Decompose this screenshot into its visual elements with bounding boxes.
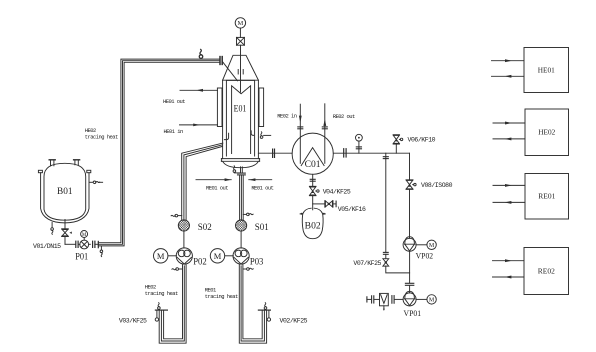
svg-text:P03: P03 (250, 257, 264, 267)
valve V08 (406, 180, 416, 189)
svg-text:P01: P01 (75, 252, 88, 262)
P01 suction flange (76, 241, 80, 247)
HE02 return arrow (493, 137, 525, 140)
pipe C01 to V04 (312, 174, 314, 186)
traced pipe P03 down U to V02 stub (239, 265, 266, 343)
P03 motor M (210, 249, 233, 263)
neck flange (238, 173, 246, 175)
traced pipe E01 jacket to S02 (182, 143, 223, 220)
pipe E01 to C01 (258, 152, 292, 154)
svg-text:M: M (429, 298, 435, 304)
V03 stub cap (155, 309, 167, 311)
vacuum pump VP01 (403, 291, 416, 306)
hose left of neck (233, 166, 239, 173)
cooler box RE01 (525, 174, 569, 220)
svg-text:HE01 in: HE01 in (164, 128, 184, 135)
hose below P02 (172, 268, 183, 271)
pipe V04 to B02 (312, 196, 314, 210)
svg-text:E01: E01 (234, 104, 247, 114)
E01 bottom flange band (221, 159, 259, 162)
valve V04 (310, 186, 320, 195)
svg-text:M: M (157, 251, 165, 261)
E01 bottom neck (241, 167, 243, 173)
E01 right jacket flange plate (259, 88, 264, 127)
svg-text:V05/KF16: V05/KF16 (338, 206, 366, 213)
svg-text:HE02: HE02 (538, 129, 555, 137)
svg-text:M: M (429, 243, 435, 249)
feed dip pipe in hood (222, 62, 237, 81)
VP01 motor M (416, 295, 436, 304)
hose right of S01 pipe (243, 213, 253, 216)
filter S01 (236, 220, 247, 231)
RE02 return arrow (493, 276, 525, 279)
B01 top nozzle left (49, 160, 55, 166)
svg-text:S01: S01 (255, 222, 269, 232)
HE01 supply arrow (492, 59, 525, 62)
svg-text:HE01 out: HE01 out (163, 98, 185, 105)
motor shaft (239, 28, 241, 37)
RE02 out pipe (322, 104, 327, 164)
svg-text:B02: B02 (305, 221, 321, 231)
vacuum main line upper (409, 153, 411, 238)
pump P01 (80, 240, 89, 249)
svg-text:RE01 out: RE01 out (251, 185, 273, 192)
P01 discharge flange (89, 241, 99, 248)
label HE02 tracing heat (riser) (85, 127, 118, 141)
pipe S02 to P02 (183, 231, 185, 248)
condenser C01 (292, 133, 333, 174)
flange E01-C01 (273, 149, 275, 157)
traced drop pipe to S01 (240, 175, 244, 220)
svg-text:V02/KF25: V02/KF25 (280, 318, 308, 325)
svg-text:RE02 in: RE02 in (277, 112, 297, 119)
column E01 body (223, 80, 259, 158)
svg-text:RE01: RE01 (538, 193, 555, 201)
valve V07 (383, 254, 389, 266)
svg-text:VP02: VP02 (416, 252, 434, 261)
V02 stub cap (258, 309, 270, 311)
svg-text:M: M (214, 251, 222, 261)
P01 motor M (81, 231, 88, 241)
svg-text:V03/KF25: V03/KF25 (119, 318, 147, 325)
pipe S01 to P03 (240, 231, 242, 248)
pump P03 (233, 248, 249, 264)
E01 dished bottom (223, 161, 259, 167)
hose on feed pipe (199, 49, 203, 58)
B01 top nozzle right (74, 160, 80, 165)
valve V02 drain (267, 311, 270, 321)
E01 inner tube (226, 80, 254, 156)
pump P02 (176, 248, 192, 264)
RE01 out arrow left (196, 178, 231, 181)
vent branch to V05 (313, 203, 325, 205)
bypass stub flange (383, 153, 388, 252)
valve V03 drain (155, 311, 158, 321)
hose on V03 stub (158, 303, 161, 310)
VP02 motor M (416, 240, 436, 249)
bypass flange above V07 (383, 252, 388, 254)
svg-text:RE02: RE02 (538, 268, 555, 276)
B01 outlet neck (64, 220, 66, 229)
valve V01 (62, 229, 72, 237)
E01 vent hook right (251, 131, 253, 136)
hose below P01 line (100, 246, 103, 257)
HE01 return arrow (492, 75, 525, 78)
roots pump VP02 (403, 237, 416, 252)
E01 jacket outlet hook left (224, 133, 228, 139)
E01 left jacket flange plate (217, 88, 222, 127)
RE01 out arrow right (249, 178, 272, 181)
label HE02 tracing heat (P02 line) (145, 283, 178, 296)
svg-text:RE02 out: RE02 out (333, 113, 355, 120)
valve V05 (325, 201, 336, 207)
traced feed pipe P01 to E01 hood (98, 59, 219, 246)
pressure gauge (356, 134, 363, 153)
B01 side nozzle with hose (89, 181, 102, 184)
agitator shaft in hood (240, 45, 242, 92)
pipe V01 to P01 (65, 237, 76, 245)
svg-text:M: M (238, 20, 244, 27)
hose on S02 riser (171, 214, 182, 217)
svg-text:B01: B01 (57, 186, 73, 196)
receiver flask B02 (300, 208, 325, 239)
svg-text:V06/KF10: V06/KF10 (408, 137, 436, 144)
svg-text:S02: S02 (198, 222, 212, 232)
flange C01 right (344, 149, 346, 157)
hose on V02 stub (264, 303, 267, 310)
bypass to main line (386, 266, 410, 273)
svg-text:V07/KF25: V07/KF25 (353, 260, 381, 267)
filter S02 (178, 220, 189, 231)
cooler box RE02 (524, 248, 569, 295)
svg-text:tracing heat: tracing heat (205, 293, 238, 300)
svg-text:VP01: VP01 (404, 309, 422, 318)
HE01 out arrow (180, 89, 218, 92)
svg-text:V04/KF25: V04/KF25 (323, 188, 351, 195)
svg-text:V08/ISO80: V08/ISO80 (421, 182, 453, 189)
traced pipe P02 down U to V03 stub (159, 265, 186, 343)
vessel B01 jacket (38, 170, 90, 223)
svg-text:HE01: HE01 (538, 67, 555, 75)
svg-text:M: M (82, 233, 87, 238)
agitator motor M (235, 18, 245, 28)
RE01 return arrow (493, 201, 525, 204)
gearbox (237, 37, 245, 45)
column E01 hood (223, 55, 259, 80)
pipe C01 to vacuum corner (333, 152, 409, 154)
svg-text:P02: P02 (193, 257, 207, 267)
heater box HE02 (525, 109, 569, 156)
RE02 supply arrow (493, 259, 525, 262)
svg-text:V01/DN15: V01/DN15 (33, 243, 61, 250)
svg-text:RE01 out: RE01 out (206, 185, 228, 192)
flange below C01 (310, 179, 315, 181)
svg-text:tracing heat: tracing heat (85, 134, 118, 141)
vacuum line VP02 to VP01 (405, 251, 413, 293)
svg-text:tracing heat: tracing heat (145, 290, 178, 297)
svg-text:C01: C01 (305, 159, 321, 169)
feed flange at hood (220, 57, 222, 65)
HE01 in arrow (180, 124, 218, 127)
valve V06 (393, 135, 403, 153)
P02 motor M (154, 249, 177, 263)
hose below P03 (243, 268, 253, 271)
RE01 supply arrow (493, 184, 525, 187)
B01 bottom drain hose (51, 223, 54, 235)
VP01 inlet filter (367, 293, 403, 311)
E01 vent hose and line (260, 132, 270, 139)
label RE01 tracing heat (P03 line) (205, 287, 238, 300)
E01 wiper cage with V top (232, 86, 251, 154)
heater box HE01 (524, 48, 569, 93)
hood vent dashes (238, 70, 243, 75)
vessel B01 shell (44, 163, 86, 220)
HE02 supply arrow (493, 122, 525, 125)
RE02 in pipe (298, 104, 303, 163)
